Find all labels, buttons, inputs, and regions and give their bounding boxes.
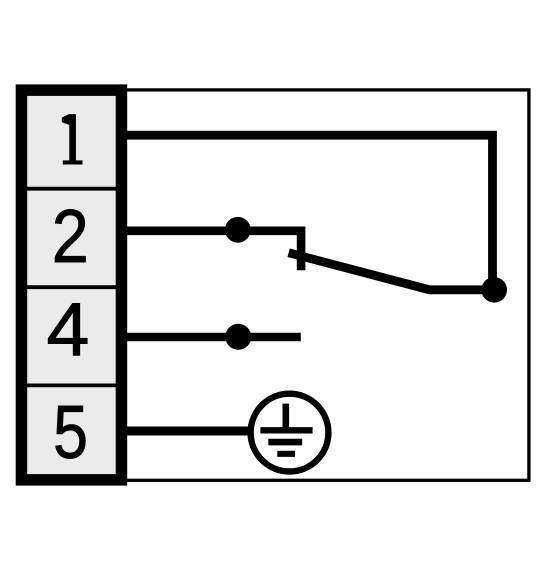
wire pin5 to earth — [125, 427, 253, 436]
svg-text:5: 5 — [53, 390, 88, 475]
protective earth symbol PE — [251, 394, 329, 472]
node A junction dot — [481, 277, 507, 303]
terminal label 1 — [62, 114, 83, 165]
terminal label 4 — [47, 288, 90, 372]
terminal label 5 — [53, 390, 88, 475]
terminal label 2 — [52, 195, 89, 279]
wire pin4 — [125, 333, 301, 342]
svg-text:2: 2 — [52, 195, 89, 279]
junction dot on wire 2 — [225, 217, 251, 243]
wire pin1 to node A — [125, 135, 493, 282]
svg-text:4: 4 — [47, 288, 90, 372]
switch arm S1 — [289, 253, 494, 290]
wire pin2 to switch contact — [125, 231, 301, 270]
junction dot on wire 4 — [225, 324, 251, 350]
enclosure outline — [22, 90, 529, 480]
terminal block connector — [21, 90, 121, 480]
